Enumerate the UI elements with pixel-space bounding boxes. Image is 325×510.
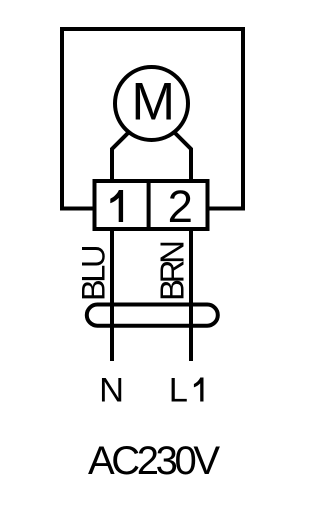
actuator housing box — [62, 29, 243, 209]
svg-text:2: 2 — [168, 181, 193, 232]
node L1 digit 1 — [194, 378, 204, 402]
terminal divider — [147, 179, 151, 231]
svg-text:L: L — [169, 372, 188, 410]
motor M1 circle — [115, 67, 188, 140]
svg-text:M: M — [131, 73, 175, 132]
terminal pin 1 — [110, 190, 123, 222]
wire right (motor pin to terminal 2, BRN) — [173, 131, 191, 361]
svg-text:N: N — [99, 372, 124, 410]
terminal block body — [95, 181, 208, 229]
wire left (motor pin to terminal 1, BLU) — [112, 131, 130, 361]
cable clamp (stadium) — [87, 305, 218, 326]
svg-text:BRN: BRN — [153, 240, 190, 301]
svg-text:BLU: BLU — [76, 245, 112, 302]
svg-text:AC230V: AC230V — [88, 439, 220, 483]
